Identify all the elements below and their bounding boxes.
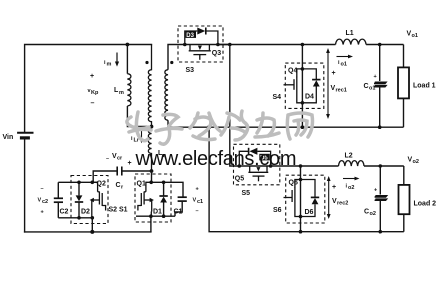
node Co2 bottom bbox=[379, 230, 383, 234]
inductor Lr bbox=[148, 127, 151, 172]
resistor Load 1 bbox=[398, 45, 436, 128]
node sec-bottom branch bbox=[207, 125, 211, 129]
svg-text:Q3: Q3 bbox=[212, 50, 221, 57]
svg-text:D2: D2 bbox=[81, 209, 90, 216]
svg-text:o2: o2 bbox=[413, 159, 419, 165]
wire top rail output1 bbox=[218, 44, 336, 46]
node S6 on bottom rail bbox=[299, 230, 303, 234]
svg-text:Vin: Vin bbox=[3, 134, 14, 141]
svg-text:C2: C2 bbox=[60, 209, 69, 216]
node D2 bottom bbox=[77, 216, 81, 220]
svg-text:o1: o1 bbox=[341, 62, 347, 68]
svg-text:+: + bbox=[332, 184, 336, 191]
svg-text:Q1: Q1 bbox=[137, 181, 146, 188]
battery Vin bbox=[3, 133, 34, 141]
svg-text:–: – bbox=[106, 156, 109, 162]
wire secondary top to S3 bbox=[168, 45, 230, 70]
node D1 bottom bbox=[162, 214, 166, 218]
diode D3 branch bbox=[185, 31, 218, 45]
svg-text:o2: o2 bbox=[370, 211, 376, 217]
node S4 bottom inner bbox=[301, 101, 305, 105]
node rail1 S4 branch bbox=[301, 43, 305, 47]
dashed box S3 bbox=[178, 26, 223, 62]
transformer primary winding bbox=[148, 45, 151, 127]
wire rail2 after L2 bbox=[364, 165, 404, 167]
wire Q2-leg sub-rail bbox=[58, 217, 92, 219]
wire rail2 to L2 bbox=[301, 165, 339, 167]
svg-text:D1: D1 bbox=[153, 209, 162, 216]
svg-text:cr: cr bbox=[117, 156, 123, 162]
node S6 top inner bbox=[299, 178, 303, 182]
label vKp with + and - bbox=[88, 73, 99, 107]
svg-text:Q2: Q2 bbox=[97, 181, 106, 188]
capacitor Co2 (electrolytic) bbox=[364, 166, 387, 232]
svg-text:www.elecfans.com: www.elecfans.com bbox=[135, 148, 297, 170]
svg-text:S2: S2 bbox=[109, 207, 118, 214]
svg-text:m: m bbox=[119, 90, 124, 96]
svg-text:+: + bbox=[196, 187, 199, 193]
dashed box S4 bbox=[285, 63, 324, 108]
node S5 input dot bbox=[238, 164, 242, 168]
node S5 branch bbox=[228, 43, 232, 47]
svg-text:rec1: rec1 bbox=[336, 88, 347, 94]
svg-text:r: r bbox=[121, 185, 124, 191]
svg-text:o1: o1 bbox=[369, 86, 375, 92]
svg-text:–: – bbox=[196, 209, 199, 215]
svg-text:S6: S6 bbox=[273, 207, 282, 214]
node Lr / Cr / Q1 junction bbox=[150, 169, 154, 173]
inductor L2 bbox=[339, 161, 365, 166]
current arrow Im bbox=[115, 53, 119, 67]
capacitor C2 bbox=[54, 182, 69, 218]
dashed box S5 bbox=[234, 144, 280, 185]
svg-text:S1: S1 bbox=[119, 207, 128, 214]
dashed box Q2/D2 bbox=[71, 176, 108, 224]
wire Q1/D1/C1 top node bbox=[151, 182, 183, 196]
node S6 bottom inner bbox=[299, 215, 303, 219]
svg-text:Kp: Kp bbox=[91, 90, 99, 96]
svg-text:D6: D6 bbox=[305, 209, 314, 216]
diode D2 bbox=[75, 182, 90, 218]
transistor Q5 (lateral MOSFET) bbox=[248, 166, 268, 181]
svg-text:C1: C1 bbox=[174, 209, 183, 216]
transistor Q1 (MOSFET, mirror of Q2) bbox=[138, 182, 152, 216]
svg-text:+: + bbox=[332, 70, 336, 77]
node Co2 top bbox=[379, 164, 383, 168]
wire drop to bottom rail bbox=[91, 218, 93, 232]
wire S5 vertical feed bbox=[230, 45, 240, 167]
node Co1 top bbox=[378, 43, 382, 47]
transistor Q4 (MOSFET) bbox=[284, 69, 303, 103]
wire Q1-leg sub-rail bbox=[136, 215, 175, 217]
node Q1 drain bbox=[149, 181, 153, 185]
label D5 (inverse) bbox=[259, 154, 270, 161]
svg-text:o1: o1 bbox=[412, 33, 418, 39]
capacitor Cr bbox=[117, 167, 122, 176]
diode D4 bbox=[302, 69, 320, 103]
svg-text:Q4: Q4 bbox=[288, 68, 297, 75]
node Q2 source / drop bbox=[91, 216, 95, 220]
inductor Lm bbox=[127, 74, 131, 106]
capacitor Co1 (electrolytic) bbox=[364, 45, 387, 128]
svg-text:+: + bbox=[128, 160, 132, 167]
svg-text:C: C bbox=[364, 209, 369, 216]
node rail2 S6 branch bbox=[299, 164, 303, 168]
svg-text:+: + bbox=[374, 74, 377, 80]
svg-text:Load 2: Load 2 bbox=[414, 201, 437, 208]
node Q1 source bbox=[149, 214, 153, 218]
dashed box Q1/D1 bbox=[135, 174, 171, 222]
watermark chinese characters bbox=[127, 111, 313, 144]
Q3 body arrow bbox=[198, 46, 202, 50]
wire secondary bottom rail bbox=[168, 120, 404, 127]
capacitor C1 bbox=[174, 197, 187, 216]
svg-text:S4: S4 bbox=[273, 94, 282, 101]
inductor L1 bbox=[336, 39, 367, 44]
svg-text:Load 1: Load 1 bbox=[413, 83, 436, 90]
wire return line to output2 bbox=[209, 127, 404, 232]
node D2 top bbox=[77, 181, 81, 185]
wire S4 main vertical bbox=[301, 45, 303, 128]
wire S6 main vertical bbox=[300, 166, 302, 232]
Q2 body arrow bbox=[90, 198, 94, 202]
transistor Q2 (MOSFET) bbox=[92, 182, 106, 218]
wire Cr right side bbox=[122, 170, 152, 172]
wire rail1 after L1 bbox=[366, 44, 403, 46]
wire Lm bottom to primary bottom node bbox=[127, 106, 151, 127]
wire bottom rail primary bbox=[25, 231, 151, 233]
diode D1 bbox=[153, 182, 168, 216]
node S4 on bottom rail bbox=[301, 125, 305, 129]
wire S5 main bbox=[239, 165, 300, 167]
wire drop to bottom rail end bbox=[150, 216, 152, 232]
svg-text:c1: c1 bbox=[197, 199, 203, 205]
transformer secondary winding bbox=[165, 70, 168, 121]
label Vc1 with + - bbox=[193, 187, 204, 215]
svg-text:–: – bbox=[41, 186, 44, 192]
svg-text:V: V bbox=[193, 198, 197, 204]
voltage arrow Vrec2 bbox=[327, 176, 331, 219]
svg-text:S5: S5 bbox=[242, 190, 251, 197]
svg-text:C: C bbox=[116, 182, 121, 189]
label Vc2 with - + bbox=[38, 186, 49, 216]
svg-text:L1: L1 bbox=[346, 30, 354, 37]
svg-text:m: m bbox=[107, 62, 112, 68]
wire Q1 drain from Cr node bbox=[151, 171, 153, 182]
node D1 top bbox=[162, 181, 166, 185]
svg-text:rec2: rec2 bbox=[337, 201, 348, 207]
resistor Load 2 bbox=[399, 166, 437, 232]
node S3 input bbox=[183, 43, 187, 47]
wire C2/D2/Q2 top node bbox=[58, 181, 97, 183]
primary phase dot bbox=[145, 61, 148, 64]
node on bottom rail bbox=[90, 230, 94, 234]
wire Cr left to Q2 drain node bbox=[93, 171, 117, 182]
svg-text:L2: L2 bbox=[345, 153, 353, 160]
svg-text:–: – bbox=[91, 100, 95, 107]
svg-text:c2: c2 bbox=[42, 199, 48, 205]
svg-text:D3: D3 bbox=[186, 33, 194, 39]
node Q2 drain bbox=[91, 181, 95, 185]
current arrow io1 bbox=[337, 55, 354, 59]
svg-text:S3: S3 bbox=[186, 67, 195, 74]
node S5 output dot bbox=[269, 164, 273, 168]
node S3 output bbox=[216, 43, 220, 47]
Q5 body arrow bbox=[256, 167, 260, 171]
wire top rail primary bbox=[25, 45, 152, 133]
label D3 (inverse) bbox=[186, 31, 197, 38]
current arrow ILr bbox=[140, 130, 144, 143]
dashed box S6 bbox=[286, 175, 325, 223]
wire Vin bottom to rail bbox=[24, 138, 26, 232]
svg-text:Q6: Q6 bbox=[289, 180, 298, 187]
svg-text:D4: D4 bbox=[305, 94, 314, 101]
transistor Q6 (MOSFET) bbox=[284, 180, 301, 217]
transistor Q3 (lateral MOSFET) bbox=[189, 45, 211, 60]
node S4 top inner bbox=[301, 67, 305, 71]
svg-text:+: + bbox=[90, 73, 94, 80]
svg-text:C: C bbox=[364, 83, 369, 90]
voltage arrow Vrec1 bbox=[326, 48, 330, 119]
svg-text:o2: o2 bbox=[348, 185, 354, 191]
svg-text:Q5: Q5 bbox=[235, 176, 244, 183]
node primary-bottom / Lm junction bbox=[150, 125, 154, 129]
svg-text:+: + bbox=[41, 210, 44, 216]
wire Lm top bbox=[126, 45, 128, 74]
node A dot on top rail bbox=[126, 43, 130, 47]
svg-text:+: + bbox=[374, 188, 377, 194]
diode D6 bbox=[301, 180, 320, 217]
secondary phase dot bbox=[170, 61, 173, 64]
diode D5 branch bbox=[239, 151, 270, 166]
Q1 body arrow bbox=[150, 198, 154, 202]
node Co1 bottom bbox=[378, 125, 382, 129]
svg-text:V: V bbox=[38, 198, 42, 204]
current arrow io2 bbox=[343, 177, 360, 181]
